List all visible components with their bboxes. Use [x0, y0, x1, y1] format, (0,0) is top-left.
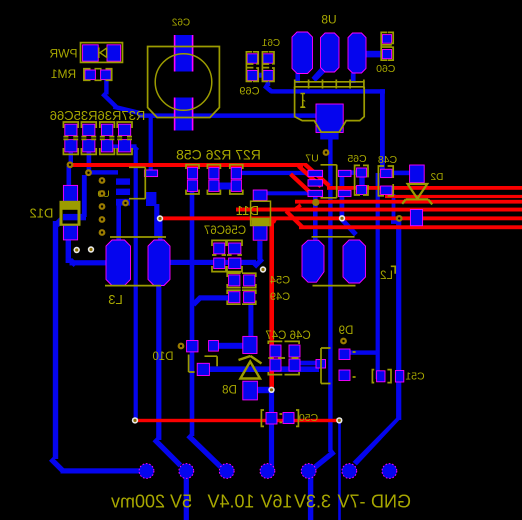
capacitor C58 pads — [231, 167, 241, 178]
wire: C60/C48 vertical x382 — [380, 89, 385, 170]
wire: R35-C66 bottom pad bridge — [112, 144, 120, 149]
wire: x377.7 vertical C48 to D9 — [376, 173, 380, 379]
wire: U8 pad3 down — [351, 73, 356, 83]
via at (342,220) — [339, 215, 345, 221]
capacitor C47 pads — [289, 345, 300, 357]
via at (326,152.5) — [323, 149, 330, 156]
wire: L3 pad2 right to C56/C67 and D11 (node) — [168, 241, 264, 269]
wire red: R7 bus line from via(160,218.5) — [160, 216, 522, 220]
wire red: R6 bus line — [236, 208, 522, 212]
wire red: R2 bus line — [327, 186, 522, 190]
resistor R26 outline — [207, 165, 220, 194]
capacitor C51 outline — [372, 370, 391, 383]
resistor R36 pads — [83, 124, 95, 135]
D12 through trace (node 200mv net) — [55, 175, 87, 227]
via V2 — [85, 169, 92, 176]
pad -7V — [342, 464, 357, 479]
diode D8 zener symbol — [239, 356, 262, 379]
inductor L2 pad 2 — [343, 240, 366, 283]
resistor R27 pads — [187, 167, 197, 178]
diode D8 bottom pad — [243, 381, 258, 400]
wire: C47 bottom pad to pad near D9 — [299, 361, 317, 366]
wire red: diagonal feed R8 — [285, 210, 304, 229]
capacitor C46/C47 outline — [268, 341, 299, 374]
pad near D9 — [316, 360, 326, 369]
wire: U7 right pad down to via(342,220) — [340, 174, 345, 218]
wire: U10 lower pad to D9 area horizontal — [207, 366, 319, 372]
wire red: R4a through D11 — [236, 208, 296, 212]
capacitor C69 outline — [246, 52, 258, 82]
transistor U6 tab pad — [316, 104, 343, 133]
diode D12 pads — [63, 185, 77, 202]
via at (91,249.5) — [88, 246, 94, 252]
transistor U10 outline — [189, 355, 218, 373]
capacitor C61 outline — [262, 52, 274, 82]
svg-text:R27 R26 C58: R27 R26 C58 — [176, 147, 261, 163]
svg-text:C51: C51 — [405, 371, 424, 383]
svg-text:C61: C61 — [261, 38, 280, 49]
resistor R37 pads — [65, 124, 77, 135]
wire red: R1-R2 diagonal — [303, 163, 331, 188]
wire: R36 pad down to via V2 — [87, 151, 92, 171]
wire: via V1 to D12 top pad — [67, 166, 72, 187]
svg-text:C49: C49 — [270, 291, 290, 303]
diode D2 zener symbol — [402, 184, 432, 204]
svg-text:10.4V: 10.4V — [207, 492, 254, 512]
via at (339,420) — [336, 417, 342, 423]
wire red: R8 bus line — [299, 225, 522, 229]
wire: RM1 right pad down and across to tab (node PWRNET) — [101, 79, 316, 118]
pad 3.3V — [301, 464, 316, 479]
wire red: 16V vertical from R7 down to via — [269, 220, 274, 390]
svg-text:D12: D12 — [30, 206, 54, 221]
wire red: R4a-R4 diagonal — [290, 203, 302, 211]
wire: C48 to D2 horizontal — [390, 171, 411, 176]
wire: 200mv horizontal to pad — [61, 468, 141, 473]
diode D11 pads — [253, 190, 267, 200]
wire red: R3 bus line — [385, 195, 522, 198]
IC U7 pads — [308, 170, 323, 176]
wire: U8 pad2 diagonal stub — [312, 66, 328, 82]
svg-text:C48: C48 — [378, 154, 397, 166]
resistor RM1 outline — [84, 69, 112, 81]
wire: 16V via(271.5,389.5) down to pad — [269, 391, 274, 471]
via marker at (181,346) — [178, 343, 185, 350]
wire: C61 bottom pad to U7 (left net) — [263, 79, 385, 94]
svg-text:5V: 5V — [170, 492, 192, 512]
svg-text:U8: U8 — [321, 13, 337, 27]
pad GND — [382, 464, 397, 479]
wire: thin x340 from via(339,420) to bottom — [338, 421, 341, 520]
wire: D11 top pad to U7 lower-left pad — [266, 191, 309, 195]
wire: C58 top pad to U7 upper-left pad — [241, 171, 309, 175]
wire: U8 pad1 down — [295, 73, 300, 83]
svg-text:D10: D10 — [152, 351, 173, 363]
IC U7 outline — [321, 165, 337, 198]
wire red: R4 bus line — [295, 200, 522, 204]
wire: via(160,218.5) down to L3 pad2 — [158, 220, 163, 242]
capacitor C61 pads — [263, 54, 273, 63]
LED PWR diode symbol — [99, 48, 107, 59]
transistor U6 pin1 mark — [301, 94, 306, 108]
wire red: diagonal texture over U7 — [297, 165, 322, 189]
wire: U8 pad3 stub to C60 — [364, 51, 384, 58]
IC U8 pads — [292, 32, 313, 74]
capacitor C60 pads — [382, 35, 391, 44]
capacitor C49 pads — [229, 292, 240, 303]
svg-text:U7: U7 — [305, 153, 319, 165]
diode D11 outline — [251, 201, 271, 225]
svg-text:L3: L3 — [108, 292, 122, 307]
diode D9 outline — [321, 348, 356, 384]
inductor L2 pad 1 — [302, 240, 324, 282]
capacitor C65 outline — [355, 165, 368, 195]
capacitor C56 pads — [214, 243, 225, 254]
wire: R37 pad down to via V1 — [69, 151, 73, 164]
wire: 200mv vertical rail x54.7 — [53, 221, 58, 459]
inductor L3 pad 1 — [106, 240, 131, 286]
wire: U7 top-right pad to C65 — [338, 170, 360, 175]
wire: 3.3V thick vertical x330 from tab to bottom — [320, 130, 338, 140]
resistor R27 outline — [186, 165, 199, 194]
svg-text:C65: C65 — [347, 153, 366, 165]
via filled at (315.8,202.4) — [312, 199, 319, 206]
capacitor C54 pads — [229, 275, 240, 286]
capacitor C65 pads — [357, 168, 367, 177]
svg-text:PWR: PWR — [49, 47, 77, 61]
capacitor C49 outline — [227, 290, 256, 304]
transistor U10 pads — [187, 341, 198, 352]
diode D8 top pad — [243, 336, 257, 353]
capacitor C62 outline — [148, 47, 220, 118]
inductor L2 outline — [312, 237, 396, 286]
via at (263,269.5) — [260, 266, 266, 272]
inductor L3 outline — [105, 237, 166, 286]
via at (76.7,250) — [74, 247, 80, 253]
pad 10.4V — [219, 464, 234, 479]
wire: C49 branch to x192 rail — [192, 295, 232, 306]
resistor R37 outline — [63, 122, 78, 154]
via at (399,218.4) — [396, 215, 403, 222]
capacitor C62 pads — [175, 35, 193, 72]
wire: U9 right pads down to L3 pad2 — [154, 204, 159, 236]
resistor R36 outline — [81, 122, 96, 154]
wire: C65 mid bridge — [359, 177, 364, 186]
svg-text:C62: C62 — [171, 18, 190, 29]
via at (160,218.5) — [157, 215, 163, 221]
U9 via row — [99, 177, 129, 236]
capacitor C67 outline — [227, 240, 242, 271]
capacitor C69 pads — [247, 54, 257, 63]
diode D2 pads — [410, 165, 425, 183]
wire: R26 to C58 bottom bridge — [217, 183, 234, 190]
resistor R26 pads — [209, 167, 219, 178]
via at (135,420) — [132, 417, 138, 423]
resistor R35 outline — [100, 122, 115, 154]
svg-text:C56C67: C56C67 — [204, 225, 246, 237]
inductor L3 pad 2 — [148, 240, 170, 286]
wire: U10 pad to D8 top pad — [216, 343, 246, 349]
wire: C69-C61 bottom pads bridge — [256, 73, 265, 78]
capacitor C66 outline — [117, 122, 132, 154]
diode D9 pads — [339, 349, 350, 360]
wire: D9 top pad to x377.7 — [348, 350, 378, 354]
via V1 — [67, 161, 74, 168]
wire: D8 bottom pad right to via(271.5,389.5) — [256, 387, 270, 393]
capacitor C48 outline — [378, 166, 393, 196]
LED PWR outline — [81, 43, 123, 63]
pad 200mv — [139, 464, 154, 479]
svg-text:C69: C69 — [239, 86, 259, 98]
wire red: R1 from via V1 across top — [69, 163, 303, 167]
wire: 5V from L3 pad2 down — [156, 284, 161, 440]
svg-text:1: 1 — [299, 97, 306, 111]
diode D12 body — [60, 201, 81, 226]
wire red: bottom jumper via(135,420) to via(339,420) — [135, 419, 339, 422]
capacitor C48 pads — [381, 169, 392, 177]
svg-text:RM1: RM1 — [51, 67, 77, 81]
wire: branch from long horizontal down to U9 right pad — [149, 116, 153, 172]
capacitor C67 pads — [229, 243, 241, 254]
wire: stub via(399,218) left — [391, 220, 398, 224]
svg-text:D8: D8 — [222, 385, 237, 397]
wire: -7V vertical x398.7 from via(399,218) — [396, 219, 401, 420]
svg-text:GND: GND — [371, 492, 411, 512]
wire: via(342,220) diagonal to L2 pad2 — [340, 220, 357, 237]
wire: C48 bottom pad down — [392, 194, 396, 222]
transistor U6 outline — [294, 80, 365, 89]
wire: R27 vertical long rail x192 (node 10.4V) — [190, 190, 195, 436]
IC U9 outline — [129, 167, 145, 198]
wire: U7 pad3L down to L2 pad1 via olive via — [313, 195, 318, 245]
svg-text:R37R36R35C66: R37R36R35C66 — [50, 108, 145, 123]
wire: C49 right col down to D8 top pad — [248, 301, 253, 339]
via marker at (343,341) — [340, 338, 347, 345]
via at (271.5,389.5) — [268, 387, 274, 393]
capacitor C51 pads — [377, 371, 385, 382]
capacitor C46 pads — [270, 345, 281, 357]
wire: U9 pads down to L3 pad1 — [116, 204, 121, 242]
capacitor C56 outline — [212, 240, 226, 271]
capacitor C60 outline — [381, 32, 393, 60]
pad 5V — [179, 464, 194, 479]
svg-text:D9: D9 — [339, 325, 354, 337]
svg-text:C54: C54 — [270, 275, 290, 287]
LED PWR pads — [83, 45, 99, 61]
svg-text:C60: C60 — [376, 63, 395, 75]
wire: D12 bottom pad down then right to L3 pad 1 — [66, 240, 110, 267]
svg-text:L2: L2 — [380, 270, 393, 282]
svg-text:3.3V: 3.3V — [294, 492, 331, 512]
pad 16V — [260, 464, 275, 479]
diode D12 body window — [63, 210, 78, 224]
svg-text:16V: 16V — [260, 492, 292, 512]
capacitor C66 pads — [119, 124, 131, 135]
svg-text:200mv: 200mv — [111, 492, 165, 512]
capacitor C54 outline — [227, 273, 256, 287]
wire: via V2 horizontal to U9 — [91, 170, 118, 174]
svg-text:C50: C50 — [299, 412, 318, 424]
wire: C66 pad to long vertical to via at (135,420) — [131, 144, 140, 419]
resistor R35 pads — [101, 124, 112, 135]
svg-text:-7V: -7V — [337, 492, 365, 512]
IC U9 pads — [116, 178, 130, 184]
capacitor C50 outline — [261, 410, 298, 426]
svg-text:D2: D2 — [430, 172, 443, 183]
diode D11 body band — [252, 218, 270, 226]
capacitor C62 circle — [155, 54, 212, 111]
resistor RM1 pads — [85, 70, 95, 80]
capacitor C58 outline — [230, 165, 243, 194]
capacitor C50 pads — [266, 413, 277, 425]
svg-text:C46 C47: C46 C47 — [265, 330, 310, 342]
svg-text:D11: D11 — [236, 203, 259, 218]
